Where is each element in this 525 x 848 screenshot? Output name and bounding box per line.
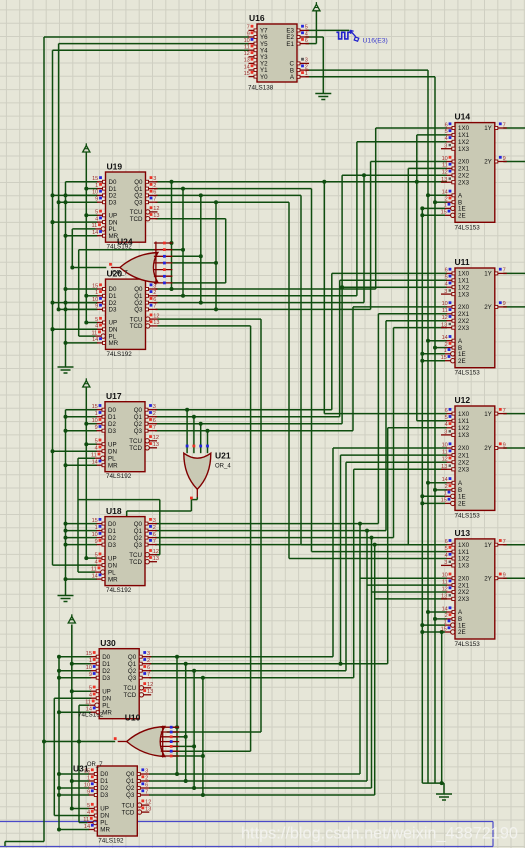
svg-text:74LS192: 74LS192 — [107, 351, 133, 358]
svg-text:2: 2 — [153, 290, 156, 296]
svg-text:7: 7 — [153, 425, 156, 431]
U14 left pins 1X0-1X3 2X0-2X3 A B 1E 2E — [447, 127, 456, 129]
counter U18 74LS192 body — [105, 517, 145, 586]
wire to U14.2X2 — [342, 174, 447, 176]
svg-text:6: 6 — [445, 268, 448, 274]
svg-text:4: 4 — [89, 693, 92, 699]
wire A to mux — [428, 482, 447, 484]
wire power to D1 — [72, 780, 90, 782]
wire to U14.1X2 — [357, 141, 447, 143]
svg-text:5: 5 — [95, 317, 98, 323]
svg-text:2Y: 2Y — [484, 159, 492, 166]
wire to U11.1X1 — [340, 279, 447, 281]
svg-text:74LS153: 74LS153 — [455, 512, 481, 519]
junction — [373, 543, 377, 547]
counter U20 74LS192 body — [106, 279, 146, 349]
wire left rail B (Y5) down — [58, 44, 60, 310]
wire power to UP — [86, 557, 97, 559]
wire — [172, 736, 186, 738]
wire column up to U11.2X1 — [377, 314, 379, 524]
svg-text:Q1: Q1 — [134, 414, 143, 421]
wire U17.Q3 — [155, 430, 353, 432]
wire D rail to D2 — [66, 302, 98, 304]
junction D rail — [64, 522, 68, 526]
svg-text:7: 7 — [147, 672, 150, 678]
svg-text:2Y: 2Y — [484, 575, 492, 582]
svg-text:12: 12 — [145, 799, 151, 805]
svg-text:10: 10 — [92, 532, 98, 538]
svg-text:74LS192: 74LS192 — [98, 838, 124, 845]
svg-text:13: 13 — [441, 464, 447, 470]
svg-text:UP: UP — [100, 806, 109, 813]
svg-text:Q1: Q1 — [134, 528, 143, 535]
svg-text:Q2: Q2 — [128, 668, 137, 675]
junction — [51, 327, 55, 331]
svg-text:1X1: 1X1 — [458, 418, 470, 425]
junction — [57, 307, 61, 311]
svg-text:D0: D0 — [108, 521, 116, 528]
wire D rail to D2 — [66, 537, 98, 539]
junction B rail — [433, 488, 437, 492]
wire D rail to MR — [66, 342, 98, 344]
svg-text:13: 13 — [153, 556, 159, 562]
svg-text:3: 3 — [444, 289, 447, 295]
junction D rail — [64, 341, 68, 345]
svg-text:OR_7: OR_7 — [87, 762, 103, 768]
svg-text:14: 14 — [442, 190, 448, 196]
wire — [200, 424, 202, 454]
svg-text:PL: PL — [102, 702, 110, 709]
wire power to UP — [86, 322, 97, 324]
svg-text:MR: MR — [108, 576, 118, 583]
svg-text:D3: D3 — [109, 307, 117, 314]
wire U16.A select line — [306, 76, 436, 78]
wire D rail to D2 — [59, 787, 89, 789]
svg-text:2: 2 — [445, 197, 448, 203]
svg-text:3: 3 — [153, 176, 156, 182]
or-gate U21 OR_4 body — [184, 453, 211, 489]
svg-text:9: 9 — [87, 789, 90, 795]
junction — [362, 173, 366, 177]
wire A to mux — [428, 340, 447, 342]
svg-text:15: 15 — [92, 283, 98, 289]
wire ground drop bottom right — [443, 783, 445, 794]
svg-text:13: 13 — [153, 320, 159, 326]
wire — [172, 745, 194, 747]
wire U20.TCU loop — [158, 318, 262, 320]
wire PL chain branch — [78, 499, 160, 501]
svg-text:Q2: Q2 — [134, 535, 143, 542]
wire U31.Q3 — [149, 794, 375, 796]
junction — [51, 220, 55, 224]
svg-text:U16: U16 — [249, 13, 265, 23]
svg-text:9: 9 — [503, 156, 506, 162]
U17 left pins D0-D3 UP DN PL MR — [97, 409, 106, 411]
or-gate U10 body — [127, 727, 165, 757]
wire to U11.1X2 — [342, 286, 447, 288]
wire — [172, 262, 216, 264]
svg-text:D3: D3 — [100, 792, 108, 799]
svg-text:1X3: 1X3 — [458, 432, 470, 439]
junction D rail — [64, 429, 68, 433]
wire D rail to D0 — [66, 181, 98, 183]
wire U20.Q3 — [156, 308, 371, 310]
svg-text:U12: U12 — [455, 395, 471, 405]
wire column U19.Q0 down to U12.1X0 — [323, 182, 325, 414]
svg-text:U21: U21 — [215, 451, 231, 461]
svg-text:74LS192: 74LS192 — [106, 587, 132, 594]
svg-text:12: 12 — [153, 313, 159, 319]
wire — [156, 218, 226, 220]
wire column up to U11.2X0 — [352, 307, 354, 431]
svg-text:3: 3 — [145, 768, 148, 774]
junction E rail — [420, 352, 424, 356]
wire D rail to D0 — [66, 409, 98, 411]
junction DN — [51, 220, 55, 224]
U12 right pins 1Y 2Y — [495, 413, 507, 415]
svg-text:5: 5 — [87, 803, 90, 809]
wire to U12.2X1 — [341, 454, 448, 456]
svg-text:3: 3 — [444, 144, 447, 150]
junction power rail — [84, 187, 88, 191]
svg-text:D1: D1 — [108, 528, 116, 535]
svg-text:14: 14 — [92, 230, 98, 236]
svg-text:6: 6 — [445, 539, 448, 545]
svg-text:7: 7 — [503, 268, 506, 274]
svg-text:4: 4 — [445, 422, 448, 428]
U21 input squares — [186, 445, 189, 448]
wire column up to U14.1X2 — [356, 142, 358, 296]
U20 right pins Q0-Q3 TCU TCD — [146, 288, 158, 290]
wire data rail zone C — [65, 410, 67, 596]
wire U13.2Y output — [503, 577, 525, 579]
svg-text:5: 5 — [89, 686, 92, 692]
wire U19.Q2 — [156, 194, 302, 196]
wire U12.2Y output — [503, 447, 525, 449]
wire B to mux — [435, 618, 447, 620]
svg-text:2E: 2E — [458, 501, 466, 508]
U20 left pins D0-D3 UP DN PL MR — [97, 288, 106, 290]
junction power rail — [70, 662, 74, 666]
wire — [79, 335, 96, 337]
wire to U10 input 2 — [167, 731, 261, 733]
svg-text:10: 10 — [84, 782, 90, 788]
svg-text:15: 15 — [84, 768, 90, 774]
svg-text:D1: D1 — [100, 778, 108, 785]
svg-text:7: 7 — [503, 408, 506, 414]
junction U10 output on rail — [42, 740, 46, 744]
svg-text:1Y: 1Y — [484, 411, 492, 418]
svg-text:Q3: Q3 — [126, 792, 135, 799]
junction D rail — [64, 536, 68, 540]
junction shared column U11.1X2 — [340, 285, 344, 289]
svg-text:6: 6 — [153, 190, 156, 196]
svg-text:11: 11 — [91, 330, 97, 336]
wire column up to U11.1X0 — [331, 273, 333, 409]
svg-text:7: 7 — [153, 197, 156, 203]
wire DN chain zone D — [53, 698, 55, 815]
svg-text:7: 7 — [153, 304, 156, 310]
svg-text:2: 2 — [445, 342, 448, 348]
ground symbol — [436, 793, 452, 795]
junction — [339, 662, 343, 666]
svg-text:5: 5 — [95, 439, 98, 445]
clock generator symbol U16(E3) — [336, 32, 350, 39]
wire column up to U12.2X3 — [353, 469, 355, 677]
wire DN U17 — [53, 450, 98, 452]
svg-text:1: 1 — [444, 203, 447, 209]
wire A-select rail down — [427, 70, 429, 783]
svg-text:1: 1 — [444, 619, 447, 625]
junction E rail — [420, 494, 424, 498]
wire — [172, 282, 225, 284]
wire D rail to D3 — [66, 430, 98, 432]
wire to U12.2X0 — [333, 447, 447, 449]
svg-text:UP: UP — [102, 688, 111, 695]
junction B rail — [433, 346, 437, 350]
wire 1E to mux — [422, 624, 445, 626]
U11 left pins 1X0-1X3 2X0-2X3 A B 1E 2E — [447, 272, 456, 274]
svg-text:3: 3 — [153, 518, 156, 524]
svg-text:D3: D3 — [109, 199, 117, 206]
svg-text:Y0: Y0 — [260, 74, 268, 81]
svg-text:DN: DN — [108, 562, 117, 569]
wire D rail to MR — [66, 235, 98, 237]
svg-text:6: 6 — [305, 38, 308, 44]
svg-text:U17: U17 — [106, 391, 122, 401]
U16 left pins Y7-Y0 — [249, 29, 258, 31]
wire U18.Q0 — [155, 523, 378, 525]
junction D rail — [64, 529, 68, 533]
wire D rail to MR — [66, 464, 98, 466]
svg-text:74LS153: 74LS153 — [455, 641, 481, 648]
svg-text:TCD: TCD — [130, 216, 143, 223]
svg-text:1: 1 — [89, 658, 92, 664]
wire — [200, 195, 202, 302]
wire power to D2 — [86, 423, 97, 425]
wire D rail to D3 — [59, 677, 91, 679]
junction power rail — [70, 779, 74, 783]
svg-text:1: 1 — [87, 775, 90, 781]
svg-text:12: 12 — [442, 457, 448, 463]
multiplexer U13 74LS153 body — [455, 539, 495, 639]
wire U11.1Y output — [503, 272, 525, 274]
svg-text:Q3: Q3 — [134, 428, 143, 435]
U14 right pins 1Y 2Y — [495, 127, 507, 129]
wire D3 ext — [59, 201, 98, 203]
svg-text:74LS138: 74LS138 — [248, 85, 274, 92]
svg-text:D1: D1 — [108, 414, 116, 421]
wire — [193, 671, 195, 788]
svg-text:DN: DN — [100, 813, 109, 820]
wire column up to U13.2X0 — [359, 524, 361, 774]
svg-text:14: 14 — [84, 824, 90, 830]
wire — [85, 152, 87, 323]
U24 input back line — [155, 242, 157, 285]
svg-text:3: 3 — [153, 404, 156, 410]
junction power rail — [84, 442, 88, 446]
wire — [78, 571, 95, 573]
junction D rail — [64, 287, 68, 291]
svg-text:4: 4 — [87, 810, 90, 816]
wire D rail to D2 — [59, 670, 91, 672]
svg-text:TCU: TCU — [129, 552, 142, 559]
svg-text:D1: D1 — [102, 661, 110, 668]
U30 left pins D0-D3 UP DN PL MR — [91, 656, 100, 658]
svg-text:TCD: TCD — [129, 559, 142, 566]
svg-text:9: 9 — [89, 672, 92, 678]
wire U17.Q2 shared column — [155, 423, 342, 425]
wire column up to U12.2X0 — [332, 448, 334, 657]
svg-text:9: 9 — [503, 573, 506, 579]
wire U16.Y5 to left rail — [59, 43, 249, 45]
svg-text:74LS153: 74LS153 — [455, 370, 481, 377]
svg-text:13: 13 — [147, 689, 153, 695]
U10 input stubs — [161, 726, 180, 728]
svg-text:1X3: 1X3 — [458, 146, 470, 153]
wire to U11.2X2 — [386, 320, 447, 322]
junction A rail — [426, 193, 430, 197]
svg-text:74LS192: 74LS192 — [106, 473, 132, 480]
wire U13.1Y output — [503, 544, 525, 546]
wire column up to U11.2X3 — [393, 328, 395, 538]
wire D rail to D3 — [66, 308, 98, 310]
svg-text:5: 5 — [445, 275, 448, 281]
wire to U12.2X2 — [346, 461, 447, 463]
junction D rail — [57, 786, 61, 790]
wire U16.Y4 to left rail — [53, 49, 250, 51]
junction E rail — [420, 213, 424, 217]
junction A rail — [426, 610, 430, 614]
wire D rail to D3 — [66, 201, 98, 203]
svg-text:5: 5 — [445, 415, 448, 421]
svg-text:U10: U10 — [125, 713, 141, 723]
svg-text:D0: D0 — [100, 771, 108, 778]
svg-text:2: 2 — [147, 658, 150, 664]
svg-text:6: 6 — [445, 122, 448, 128]
svg-text:2X1: 2X1 — [458, 452, 470, 459]
wire to U10 input 6 — [167, 750, 251, 752]
svg-text:9: 9 — [95, 539, 98, 545]
svg-text:11: 11 — [442, 449, 448, 455]
svg-text:15: 15 — [441, 626, 447, 632]
svg-text:2X0: 2X0 — [458, 445, 470, 452]
wire D rail to D3 — [59, 794, 89, 796]
svg-text:74LS153: 74LS153 — [455, 224, 481, 231]
wire column up to U14.2X2 line — [363, 175, 365, 302]
wire — [71, 229, 73, 268]
wire U18.Q3 — [155, 544, 408, 546]
junction D rail — [57, 669, 61, 673]
svg-text:4: 4 — [445, 282, 448, 288]
junction E rail — [420, 623, 424, 627]
junction — [51, 449, 55, 453]
wire — [72, 228, 95, 230]
svg-text:12: 12 — [153, 549, 159, 555]
svg-text:Q2: Q2 — [126, 785, 135, 792]
power symbol — [83, 146, 90, 153]
wire D rail to D1 — [66, 530, 98, 532]
junction power rail — [70, 807, 74, 811]
wire D rail to D3 — [66, 544, 98, 546]
wire — [155, 554, 160, 556]
svg-text:D2: D2 — [100, 785, 108, 792]
svg-text:D0: D0 — [108, 407, 116, 414]
wire E1 power riser — [315, 11, 317, 44]
wire U24 output — [72, 267, 106, 269]
svg-text:11: 11 — [85, 700, 91, 706]
U21 output stub — [196, 489, 198, 497]
svg-text:U24: U24 — [117, 237, 133, 247]
svg-text:13: 13 — [441, 594, 447, 600]
junction DN — [51, 327, 55, 331]
counter U19 74LS192 body — [106, 172, 146, 242]
wire column up to U12.2X1 — [340, 455, 342, 664]
wire A to mux — [428, 194, 447, 196]
wire to U13.2X2 — [372, 591, 448, 593]
wire U16.E2 to ground — [306, 36, 324, 38]
svg-text:9: 9 — [247, 31, 250, 37]
svg-text:14: 14 — [442, 477, 448, 483]
wire U16.E1 to power — [306, 43, 317, 45]
wire to U13.1X2 — [289, 558, 447, 560]
wire to U13.2X0 — [360, 577, 447, 579]
svg-text:11: 11 — [244, 45, 250, 51]
svg-text:5: 5 — [445, 546, 448, 552]
svg-text:9: 9 — [95, 304, 98, 310]
U18 right pins Q0-Q3 TCU TCD — [145, 523, 157, 525]
wire U20.Q1 — [156, 295, 357, 297]
svg-text:9: 9 — [95, 197, 98, 203]
svg-text:MR: MR — [108, 462, 118, 469]
svg-text:OR_7: OR_7 — [112, 271, 128, 277]
svg-text:Q3: Q3 — [128, 675, 137, 682]
svg-text:15: 15 — [92, 176, 98, 182]
svg-text:4: 4 — [95, 559, 98, 565]
svg-text:Q1: Q1 — [126, 778, 135, 785]
wire to U13.2X3 — [375, 598, 447, 600]
wire column U19.Q2 down to U13.1X0 — [300, 195, 302, 544]
ground symbol — [58, 595, 74, 597]
svg-text:D3: D3 — [108, 428, 116, 435]
wire U31.Q2 — [149, 787, 372, 789]
svg-text:6: 6 — [153, 532, 156, 538]
wire column up to U11.2X2 — [385, 321, 387, 531]
wire column U20.TCD down — [250, 326, 252, 751]
svg-text:15: 15 — [441, 210, 447, 216]
junction D rail — [57, 793, 61, 797]
wire U20.Q0 — [156, 288, 376, 290]
svg-text:U19: U19 — [107, 162, 123, 172]
svg-text:9: 9 — [503, 442, 506, 448]
svg-text:1: 1 — [444, 491, 447, 497]
wire D rail to D0 — [66, 288, 98, 290]
svg-text:D2: D2 — [102, 668, 110, 675]
svg-text:12: 12 — [153, 206, 159, 212]
U19 left pins D0-D3 UP DN PL MR — [97, 181, 106, 183]
svg-text:11: 11 — [83, 817, 89, 823]
svg-text:10: 10 — [244, 38, 250, 44]
wire — [85, 387, 87, 558]
svg-text:Q2: Q2 — [134, 421, 143, 428]
svg-text:6: 6 — [153, 297, 156, 303]
junction D rail — [64, 543, 68, 547]
svg-text:7: 7 — [503, 539, 506, 545]
svg-text:Q1: Q1 — [128, 661, 137, 668]
svg-text:2Y: 2Y — [484, 304, 492, 311]
wire D2 ext — [53, 302, 98, 304]
wire U30.Q3 — [149, 677, 354, 679]
